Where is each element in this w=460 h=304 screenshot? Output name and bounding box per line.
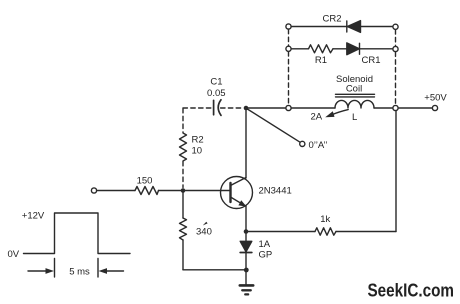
resistor 150 bbox=[135, 187, 159, 195]
terminal +50V (open circle) bbox=[432, 105, 437, 110]
wire main rail: circle to +50V terminal bbox=[398, 107, 432, 109]
node: right upper corner of snubber network (open circle) bbox=[393, 24, 398, 29]
wire 1k to right vertical bbox=[336, 231, 396, 233]
diode 1A GP (points down) bbox=[240, 232, 252, 271]
diode CR1 (anode left) bbox=[347, 43, 360, 55]
wire main rail: coil to right circle bbox=[374, 107, 393, 109]
wire dashed right vertical between snubber corners bbox=[395, 30, 397, 47]
node: left lower corner of snubber network (open circle) bbox=[286, 46, 291, 51]
svg-text:1A: 1A bbox=[259, 239, 271, 250]
svg-text:150: 150 bbox=[137, 176, 153, 187]
switch arm from collector node bbox=[247, 109, 301, 143]
svg-text:CR2: CR2 bbox=[322, 14, 341, 25]
wire CR2 branch left bbox=[291, 26, 346, 28]
inductor L solenoid coil bbox=[335, 100, 374, 108]
wire CR2 branch right bbox=[361, 26, 393, 28]
wire dashed left vertical snubber to main rail bbox=[288, 52, 290, 105]
resistor 1k bbox=[315, 228, 336, 235]
wire dashed left vertical between snubber corners bbox=[288, 29, 290, 46]
resistor 340 bbox=[180, 218, 187, 240]
pulse width dimension ticks bbox=[55, 259, 99, 278]
resistor R1 bbox=[309, 45, 334, 53]
svg-text:340: 340 bbox=[196, 227, 212, 238]
wire CR1 branch right bbox=[360, 48, 393, 50]
wire dashed R2 branch top bbox=[182, 109, 184, 133]
transistor Q1 2N3441 bbox=[221, 177, 253, 209]
svg-text:2A: 2A bbox=[310, 111, 322, 122]
svg-text:R1: R1 bbox=[315, 55, 327, 66]
node: right lower corner of snubber network (open circle) bbox=[393, 46, 398, 51]
switch contact 0"A" (open circle) bbox=[300, 141, 305, 146]
capacitor C1 plates bbox=[214, 100, 221, 116]
wire main rail: circle to coil bbox=[291, 107, 335, 109]
dimension arrow right bbox=[99, 268, 124, 274]
terminal input (open circle) bbox=[91, 188, 96, 193]
wire dashed R2 branch bottom bbox=[182, 162, 184, 188]
wire emitter vertical bbox=[245, 206, 247, 232]
wire R1 branch left bbox=[291, 48, 308, 50]
wire input to 150 resistor bbox=[97, 190, 135, 192]
wire dashed C1 to collector node bbox=[221, 107, 244, 109]
node: left upper corner of snubber network (open circle) bbox=[286, 24, 291, 29]
wire R1 to CR1 bbox=[333, 48, 347, 50]
stray tick above 340 label bbox=[203, 222, 208, 226]
svg-text:0V: 0V bbox=[8, 249, 20, 260]
svg-text:+12V: +12V bbox=[22, 211, 45, 222]
node on main rail (open circle, right) bbox=[393, 105, 398, 110]
wire dashed right vertical snubber to main rail bbox=[395, 52, 397, 105]
wire main rail: node to left circle bbox=[248, 107, 286, 109]
svg-text:0.05: 0.05 bbox=[207, 88, 226, 99]
wire right vertical feedback bbox=[395, 111, 397, 232]
svg-text:SeekIC.com: SeekIC.com bbox=[368, 281, 455, 301]
svg-text:Coil: Coil bbox=[346, 84, 362, 95]
current arrow 2A (points lower-left) bbox=[325, 110, 348, 118]
wire left branch to 340 bbox=[182, 191, 184, 219]
ground bbox=[240, 270, 253, 294]
svg-text:CR1: CR1 bbox=[361, 55, 380, 66]
svg-text:10: 10 bbox=[192, 146, 203, 157]
wire 340 bottom vertical bbox=[182, 240, 184, 270]
svg-text:GP: GP bbox=[259, 250, 273, 261]
svg-text:R2: R2 bbox=[192, 135, 204, 146]
inductor core bars bbox=[336, 94, 375, 97]
wire dashed C1 branch left (corner at x183) bbox=[183, 107, 211, 109]
wire bottom horizontal to ground node bbox=[183, 269, 244, 271]
svg-text:2N3441: 2N3441 bbox=[259, 186, 292, 197]
diode CR2 (cathode left) bbox=[347, 21, 361, 33]
svg-text:0’’A’’: 0’’A’’ bbox=[309, 140, 328, 151]
svg-text:L: L bbox=[352, 112, 357, 123]
dimension arrow left bbox=[28, 268, 54, 274]
node on main rail (open circle, left) bbox=[286, 105, 291, 110]
junction: collector node on main rail bbox=[244, 106, 249, 111]
svg-text:5 ms: 5 ms bbox=[69, 267, 90, 278]
svg-text:+50V: +50V bbox=[424, 93, 447, 104]
junction: emitter node bbox=[244, 229, 249, 234]
junction: base node bbox=[181, 188, 186, 193]
resistor R2 bbox=[180, 133, 187, 161]
wire collector vertical bbox=[245, 108, 247, 178]
wire emitter row to 1k bbox=[248, 231, 315, 233]
input pulse waveform bbox=[24, 213, 131, 254]
junction: ground node bbox=[244, 268, 249, 273]
svg-text:C1: C1 bbox=[210, 77, 222, 88]
wire base row to transistor bbox=[159, 190, 231, 192]
svg-text:1k: 1k bbox=[320, 214, 330, 225]
